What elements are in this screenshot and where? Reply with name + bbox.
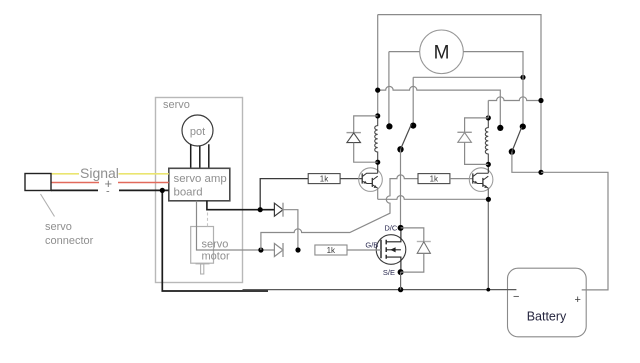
- resistor R2 1k: [418, 174, 450, 184]
- left contact stem (from motor left wire): [388, 52, 390, 127]
- wire R2 to Q2 base: [450, 178, 473, 180]
- node S/E: [398, 269, 404, 275]
- svg-text:-: -: [106, 186, 110, 198]
- svg-text:D/C: D/C: [384, 224, 398, 233]
- pot linkage dashed: [207, 213, 209, 227]
- wire R1 to Q1 base: [340, 178, 362, 180]
- svg-text:−: −: [513, 291, 519, 303]
- svg-text:M: M: [434, 43, 450, 64]
- node: coil-2 bottom / Q2 collector: [486, 162, 491, 167]
- blade: [401, 124, 412, 149]
- node: emitters on bottom rail: [486, 288, 490, 292]
- node: row B / R1 branch: [258, 207, 263, 212]
- battery: [508, 268, 587, 337]
- node: S/E on bottom rail: [398, 287, 403, 292]
- servo connector: [25, 174, 51, 191]
- blade: [512, 127, 522, 151]
- net: diode node to Q2 base (row C, diagonal, vertical, row A right): [261, 175, 418, 250]
- wire: Q2 emitter down to emitter row and bottom rail: [487, 188, 489, 289]
- svg-text:1k: 1k: [430, 175, 439, 184]
- node: coil-1 top: [375, 113, 380, 118]
- plus wire (red): [51, 182, 169, 184]
- transistor Q2: [469, 168, 493, 192]
- svg-text:1k: 1k: [327, 246, 336, 255]
- wire: D1 cathode down to diode node: [283, 210, 298, 250]
- svg-text:motor: motor: [202, 251, 230, 263]
- diode D2 (row D): [274, 244, 283, 257]
- node: diode cathodes join: [295, 247, 300, 252]
- servo motor shaft: [196, 263, 210, 265]
- svg-text:Signal: Signal: [80, 165, 119, 181]
- wire: Q2 collector up to coil-2 node: [487, 164, 489, 173]
- connector leader line: [41, 194, 55, 217]
- relay 2 flyback diode: [465, 118, 489, 132]
- top rail: [378, 15, 541, 173]
- wire: SW2 common to right column: [512, 152, 541, 173]
- motor right wire: [463, 52, 523, 127]
- relay 1 coil L1: [375, 116, 378, 162]
- pot P1: [182, 115, 213, 146]
- svg-text:pot: pot: [190, 126, 205, 138]
- minus wire (black): [51, 189, 169, 191]
- wire: Q1 collector up to coil node: [377, 162, 379, 173]
- bottom rail (black wire from servo minus): [162, 190, 268, 291]
- signal wire (yellow): [51, 173, 169, 175]
- switch SW2: [520, 124, 526, 130]
- svg-text:+: +: [575, 294, 581, 306]
- node: coil-2 top: [486, 115, 491, 120]
- servo enclosure box: [156, 98, 243, 283]
- svg-text:S/E: S/E: [383, 268, 395, 277]
- common node: [397, 146, 403, 152]
- svg-text:servo amp: servo amp: [174, 173, 227, 185]
- servo motor box: [191, 227, 214, 264]
- resistor R1 1k: [308, 174, 340, 184]
- node: coil-1 bottom / Q1 collector: [375, 160, 380, 165]
- rail B: coil-2 top to right column: [488, 97, 541, 118]
- svg-text:Battery: Battery: [527, 310, 567, 324]
- motor M: [420, 30, 464, 74]
- wire: gate from R3: [347, 249, 381, 251]
- wire: board output 2 to row D: [197, 201, 275, 250]
- emitter row wire with hop: [378, 196, 489, 200]
- node: diode-2 anode branch: [258, 247, 263, 252]
- right contact stem: [412, 77, 414, 125]
- wire: SW1 common down to MOSFET drain: [400, 149, 402, 228]
- svg-text:servo: servo: [45, 221, 72, 233]
- rail 2: SW1 right contact to motor right column: [413, 76, 523, 78]
- node D/C: [398, 225, 404, 231]
- left vertical to relay 1 coil: [377, 15, 379, 116]
- wire: Q1 emitter down: [377, 188, 379, 199]
- bottom rail (gray) to battery minus: [243, 289, 517, 291]
- node: emitters join: [486, 197, 491, 202]
- svg-text:servo: servo: [163, 99, 190, 111]
- svg-text:1k: 1k: [320, 175, 329, 184]
- relay 2 coil L2: [485, 118, 488, 164]
- MOSFET Q3: [376, 228, 406, 272]
- diode D1 (row B): [274, 203, 283, 216]
- wire: S/E to bottom rail: [400, 272, 402, 290]
- pot wires: [191, 144, 209, 168]
- resistor R3 1k: [315, 245, 347, 255]
- flyback diode D3 (MOSFET): [401, 228, 424, 242]
- transistor Q1: [359, 168, 383, 192]
- rail A: coil-1 column to SW2 left contact: [378, 86, 501, 128]
- wire: right column to battery plus: [541, 172, 608, 290]
- relay 1 flyback diode: [354, 116, 378, 133]
- svg-text:G/B: G/B: [365, 241, 378, 250]
- wire: row B branch up to R1: [260, 179, 308, 210]
- svg-text:servo: servo: [202, 239, 229, 251]
- node: minus wire junction: [160, 188, 165, 193]
- svg-text:connector: connector: [45, 235, 94, 247]
- wire: board output 1 to row B: [207, 201, 275, 210]
- servo amp board: [169, 168, 230, 201]
- svg-text:board: board: [174, 187, 203, 199]
- motor left wire: [389, 51, 420, 53]
